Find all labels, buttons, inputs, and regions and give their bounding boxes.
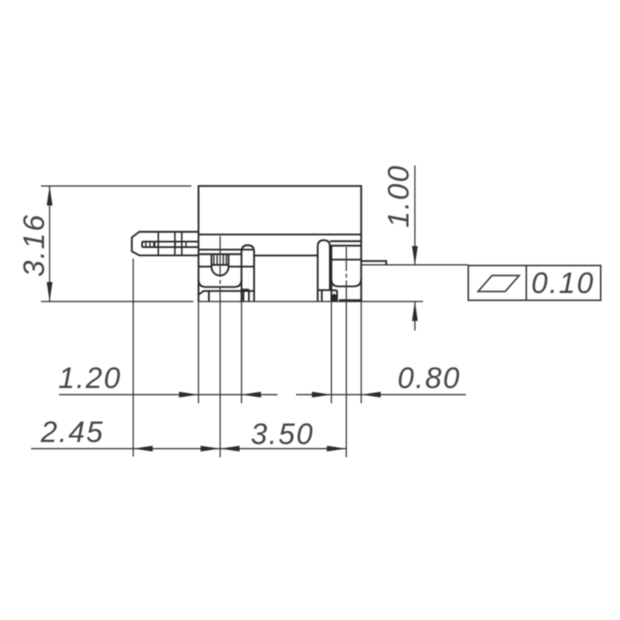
svg-text:1.20: 1.20 bbox=[58, 362, 121, 395]
svg-text:2.45: 2.45 bbox=[40, 416, 104, 449]
svg-text:3.16: 3.16 bbox=[18, 213, 51, 276]
svg-text:3.50: 3.50 bbox=[251, 418, 314, 451]
svg-text:0.10: 0.10 bbox=[531, 267, 594, 300]
svg-text:1.00: 1.00 bbox=[383, 164, 416, 227]
svg-text:0.80: 0.80 bbox=[397, 362, 460, 395]
